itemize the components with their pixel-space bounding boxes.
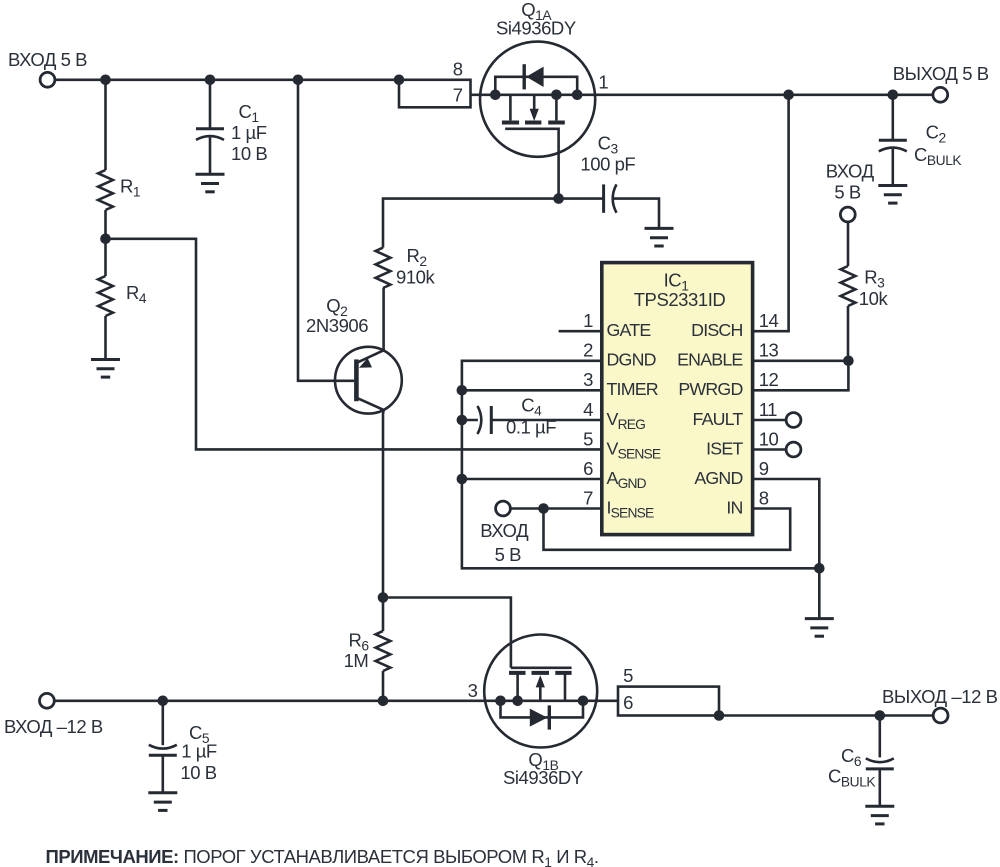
svg-text:100 pF: 100 pF	[580, 154, 635, 175]
svg-text:TIMER: TIMER	[607, 379, 659, 399]
svg-text:ВХОД: ВХОД	[826, 161, 875, 182]
svg-text:5: 5	[623, 665, 633, 686]
svg-text:ПРИМЕЧАНИЕ: ПОРОГ УСТАНАВЛИВАЕ: ПРИМЕЧАНИЕ: ПОРОГ УСТАНАВЛИВАЕТСЯ ВЫБОРО…	[46, 846, 599, 867]
svg-text:8: 8	[759, 487, 769, 508]
svg-text:1 µF: 1 µF	[231, 122, 267, 143]
svg-text:7: 7	[583, 487, 593, 508]
svg-text:ВЫХОД 5 В: ВЫХОД 5 В	[893, 63, 989, 84]
svg-text:ВХОД 5 В: ВХОД 5 В	[8, 49, 87, 70]
svg-text:5 В: 5 В	[495, 544, 522, 565]
svg-text:3: 3	[468, 680, 478, 701]
svg-text:PWRGD: PWRGD	[678, 379, 742, 399]
svg-text:2: 2	[583, 340, 593, 361]
svg-text:10k: 10k	[859, 288, 889, 309]
svg-text:5: 5	[583, 428, 593, 449]
svg-text:0.1 µF: 0.1 µF	[506, 417, 556, 438]
svg-text:DISCH: DISCH	[691, 320, 742, 340]
svg-text:4: 4	[583, 399, 593, 420]
svg-text:11: 11	[759, 399, 777, 420]
svg-text:2N3906: 2N3906	[306, 315, 368, 336]
svg-text:1: 1	[583, 310, 593, 331]
svg-text:ВХОД –12 В: ВХОД –12 В	[4, 716, 103, 737]
svg-text:7: 7	[453, 85, 463, 106]
svg-text:10 В: 10 В	[231, 143, 267, 164]
svg-text:6: 6	[623, 692, 633, 713]
svg-text:FAULT: FAULT	[692, 409, 743, 429]
svg-text:TPS2331ID: TPS2331ID	[634, 289, 726, 310]
svg-text:1M: 1M	[344, 650, 369, 671]
svg-text:IN: IN	[726, 497, 742, 517]
svg-text:9: 9	[759, 458, 769, 479]
svg-text:ВЫХОД –12 В: ВЫХОД –12 В	[882, 686, 998, 707]
svg-text:ВХОД: ВХОД	[480, 520, 529, 541]
svg-text:8: 8	[453, 59, 463, 80]
svg-text:13: 13	[759, 340, 779, 361]
svg-text:5 В: 5 В	[834, 181, 861, 202]
svg-text:Si4936DY: Si4936DY	[503, 767, 583, 788]
svg-text:ISET: ISET	[706, 438, 743, 458]
svg-text:10: 10	[759, 428, 779, 449]
svg-text:Si4936DY: Si4936DY	[496, 18, 576, 39]
svg-text:ENABLE: ENABLE	[677, 350, 743, 370]
svg-text:6: 6	[583, 458, 593, 479]
svg-text:910k: 910k	[396, 267, 436, 288]
svg-text:14: 14	[759, 310, 779, 331]
svg-text:AGND: AGND	[694, 468, 742, 488]
svg-text:1: 1	[598, 71, 608, 92]
svg-text:1 µF: 1 µF	[181, 740, 217, 761]
svg-text:10 В: 10 В	[180, 762, 216, 783]
svg-text:GATE: GATE	[607, 320, 652, 340]
svg-text:3: 3	[583, 369, 593, 390]
svg-text:12: 12	[759, 369, 779, 390]
svg-text:DGND: DGND	[607, 350, 656, 370]
